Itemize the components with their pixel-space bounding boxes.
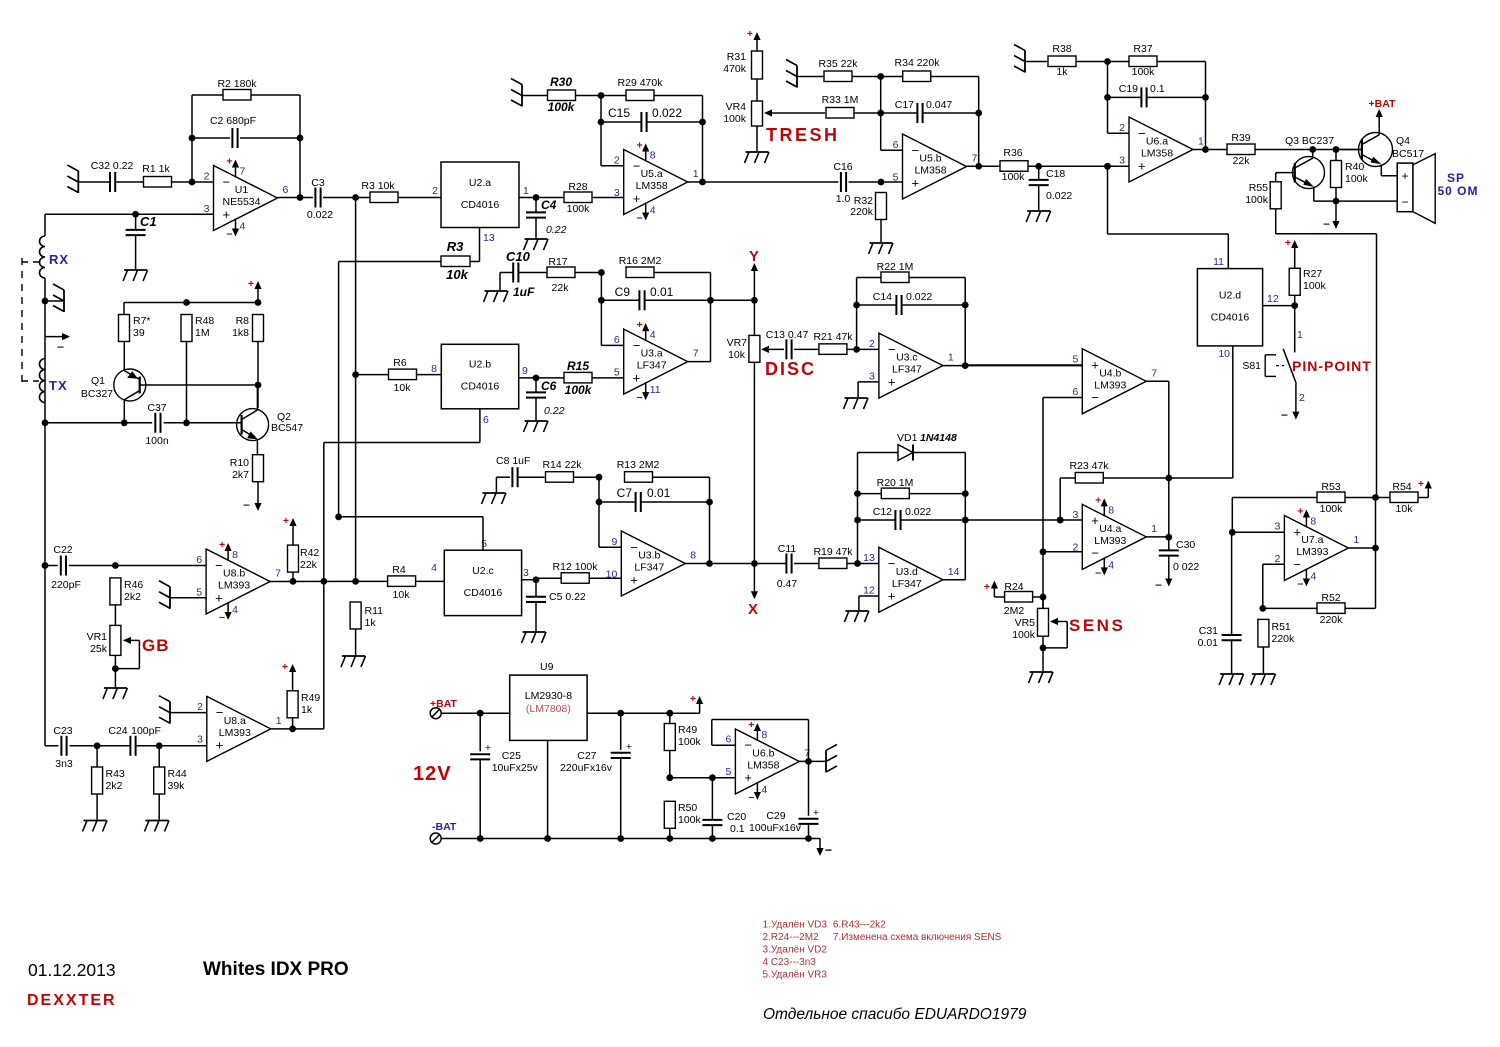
- svg-text:10: 10: [1218, 348, 1230, 360]
- svg-text:4: 4: [761, 784, 767, 796]
- svg-text:5: 5: [893, 171, 899, 183]
- svg-text:C25: C25: [502, 750, 521, 762]
- svg-text:7: 7: [804, 747, 810, 759]
- svg-text:C12: C12: [873, 506, 892, 518]
- svg-text:C2 680pF: C2 680pF: [210, 115, 256, 127]
- svg-text:VR7: VR7: [727, 337, 748, 349]
- svg-text:-BAT: -BAT: [432, 821, 457, 833]
- svg-text:−: −: [1091, 546, 1099, 561]
- svg-text:5: 5: [614, 366, 620, 378]
- svg-text:100uFx16v: 100uFx16v: [749, 822, 802, 834]
- svg-text:+: +: [1091, 358, 1099, 373]
- svg-text:+: +: [216, 738, 224, 753]
- svg-text:U3.d: U3.d: [896, 566, 918, 578]
- svg-text:100k: 100k: [1320, 503, 1344, 515]
- svg-text:10: 10: [606, 568, 618, 580]
- svg-text:U9: U9: [540, 661, 554, 673]
- svg-text:R1 1k: R1 1k: [142, 163, 170, 175]
- svg-text:LM393: LM393: [1094, 379, 1126, 391]
- svg-text:7.Изменена схема включения SEN: 7.Изменена схема включения SENS: [833, 932, 1002, 943]
- svg-text:−: −: [748, 792, 754, 804]
- svg-text:100pF: 100pF: [131, 725, 161, 737]
- svg-text:R24: R24: [1004, 581, 1023, 593]
- svg-text:C4: C4: [541, 198, 557, 212]
- svg-text:2k7: 2k7: [232, 469, 249, 481]
- svg-text:U5.a: U5.a: [641, 168, 663, 180]
- svg-text:C31: C31: [1199, 625, 1218, 637]
- svg-text:−: −: [1095, 567, 1101, 579]
- svg-text:3: 3: [1119, 154, 1125, 166]
- svg-text:−: −: [888, 556, 896, 571]
- svg-text:−: −: [57, 340, 64, 354]
- svg-text:R52: R52: [1321, 592, 1340, 604]
- svg-text:1k: 1k: [1056, 66, 1068, 78]
- svg-text:+: +: [630, 572, 638, 587]
- svg-text:+: +: [888, 374, 896, 389]
- svg-text:R46: R46: [124, 579, 143, 591]
- svg-text:R37: R37: [1133, 43, 1152, 55]
- svg-text:CD4016: CD4016: [461, 381, 500, 393]
- svg-text:6: 6: [726, 734, 732, 746]
- svg-text:R16 2M2: R16 2M2: [619, 255, 662, 267]
- svg-text:CD4016: CD4016: [461, 199, 500, 211]
- svg-text:R11: R11: [365, 605, 384, 617]
- svg-text:+: +: [912, 175, 920, 190]
- svg-text:U4.a: U4.a: [1099, 523, 1121, 535]
- svg-text:C29: C29: [766, 810, 785, 822]
- svg-text:1uF: 1uF: [513, 285, 535, 299]
- svg-text:Q3 BC237: Q3 BC237: [1285, 135, 1334, 147]
- svg-text:+: +: [485, 742, 491, 754]
- svg-text:U5.b: U5.b: [919, 153, 941, 165]
- svg-text:+: +: [637, 140, 643, 152]
- svg-text:U3.c: U3.c: [896, 352, 918, 364]
- svg-text:+: +: [248, 278, 254, 290]
- svg-text:R27: R27: [1303, 268, 1322, 280]
- svg-text:CD4016: CD4016: [464, 587, 503, 599]
- svg-text:C10: C10: [506, 249, 531, 264]
- svg-text:C17: C17: [895, 99, 914, 111]
- svg-text:R49: R49: [678, 724, 697, 736]
- svg-text:U2.c: U2.c: [472, 565, 494, 577]
- svg-text:R35 22k: R35 22k: [818, 58, 858, 70]
- svg-text:Y: Y: [749, 248, 759, 265]
- svg-text:Q1: Q1: [91, 375, 105, 387]
- svg-text:7: 7: [693, 348, 699, 360]
- svg-text:14: 14: [948, 566, 960, 578]
- svg-text:GB: GB: [142, 636, 170, 655]
- svg-text:10k: 10k: [393, 589, 411, 601]
- svg-text:R6: R6: [393, 357, 407, 369]
- svg-text:5: 5: [481, 538, 487, 550]
- svg-text:0 022: 0 022: [1173, 561, 1199, 573]
- svg-text:R15: R15: [567, 359, 589, 373]
- svg-text:1N4148: 1N4148: [920, 432, 957, 444]
- svg-text:LM393: LM393: [1296, 546, 1328, 558]
- svg-text:LM393: LM393: [1094, 535, 1126, 547]
- svg-text:3n3: 3n3: [55, 758, 73, 770]
- svg-text:TRESH: TRESH: [766, 125, 840, 145]
- svg-text:+: +: [813, 807, 819, 819]
- svg-text:13: 13: [863, 552, 875, 564]
- svg-text:+: +: [626, 741, 632, 753]
- svg-text:+: +: [984, 581, 990, 593]
- svg-text:1.0: 1.0: [836, 193, 851, 205]
- svg-text:−: −: [633, 338, 641, 353]
- svg-text:C32 0.22: C32 0.22: [91, 160, 134, 172]
- svg-text:1: 1: [1297, 329, 1303, 341]
- svg-text:R2 180k: R2 180k: [217, 78, 257, 90]
- svg-text:2: 2: [204, 170, 210, 182]
- svg-text:220k: 220k: [1272, 633, 1296, 645]
- svg-text:100k: 100k: [1012, 629, 1036, 641]
- svg-text:+: +: [1138, 158, 1146, 173]
- svg-text:C19: C19: [1119, 83, 1138, 95]
- svg-text:1: 1: [276, 715, 282, 727]
- svg-text:R51: R51: [1272, 621, 1291, 633]
- svg-text:+: +: [215, 590, 223, 605]
- svg-text:R43: R43: [106, 768, 125, 780]
- svg-text:U8.b: U8.b: [223, 568, 245, 580]
- svg-text:X: X: [748, 601, 758, 618]
- svg-text:+: +: [282, 661, 288, 673]
- svg-text:100k: 100k: [1345, 173, 1369, 185]
- svg-text:100k: 100k: [567, 203, 591, 215]
- svg-text:8: 8: [1310, 516, 1316, 528]
- svg-text:U3.b: U3.b: [638, 550, 660, 562]
- svg-text:R13 2M2: R13 2M2: [617, 459, 660, 471]
- svg-text:VR4: VR4: [726, 101, 747, 113]
- svg-text:R17: R17: [548, 256, 567, 268]
- svg-text:5: 5: [1072, 354, 1078, 366]
- svg-text:22k: 22k: [1233, 155, 1251, 167]
- svg-text:−: −: [912, 143, 920, 158]
- svg-text:C11: C11: [778, 543, 797, 555]
- svg-text:5: 5: [726, 766, 732, 778]
- svg-text:R42: R42: [300, 547, 319, 559]
- svg-text:10k: 10k: [446, 267, 468, 282]
- svg-text:LF347: LF347: [892, 578, 922, 590]
- svg-text:+: +: [226, 156, 232, 168]
- svg-text:C9: C9: [615, 285, 631, 299]
- svg-text:−: −: [1297, 579, 1303, 591]
- svg-text:U3.a: U3.a: [641, 348, 663, 360]
- svg-text:100k: 100k: [723, 113, 747, 125]
- svg-text:C14: C14: [873, 291, 892, 303]
- svg-text:R34 220k: R34 220k: [895, 57, 941, 69]
- svg-text:10k: 10k: [394, 382, 412, 394]
- svg-text:C24: C24: [108, 725, 127, 737]
- svg-text:50 OM: 50 OM: [1437, 184, 1478, 198]
- svg-text:C23: C23: [53, 725, 72, 737]
- svg-text:2M2: 2M2: [1004, 605, 1025, 617]
- svg-text:7: 7: [240, 166, 246, 178]
- svg-text:5: 5: [196, 586, 202, 598]
- svg-text:9: 9: [522, 365, 528, 377]
- svg-text:(LM7808): (LM7808): [526, 703, 571, 715]
- svg-text:0.1: 0.1: [1150, 83, 1165, 95]
- svg-text:2: 2: [1119, 122, 1125, 134]
- svg-text:−: −: [630, 540, 638, 555]
- svg-text:0.047: 0.047: [926, 99, 952, 111]
- svg-text:DEXXTER: DEXXTER: [27, 992, 117, 1009]
- svg-text:2.R24---2M2: 2.R24---2M2: [763, 932, 820, 943]
- svg-text:R8: R8: [236, 315, 250, 327]
- svg-text:LM393: LM393: [218, 580, 250, 592]
- svg-text:PIN-POINT: PIN-POINT: [1292, 358, 1372, 374]
- svg-text:+BAT: +BAT: [1369, 98, 1397, 110]
- svg-text:7: 7: [275, 568, 281, 580]
- svg-text:R36: R36: [1003, 147, 1022, 159]
- svg-text:5.Удалён VR3: 5.Удалён VR3: [763, 970, 828, 981]
- svg-text:R50: R50: [678, 802, 697, 814]
- svg-text:1k: 1k: [365, 617, 377, 629]
- svg-text:LF347: LF347: [637, 360, 667, 372]
- svg-text:1: 1: [523, 185, 529, 197]
- svg-text:12V: 12V: [413, 763, 452, 785]
- svg-text:R55: R55: [1249, 182, 1268, 194]
- svg-text:+: +: [633, 191, 641, 206]
- svg-text:2: 2: [432, 185, 438, 197]
- svg-text:R22 1M: R22 1M: [877, 261, 914, 273]
- svg-text:9: 9: [611, 536, 617, 548]
- svg-text:R14 22k: R14 22k: [542, 459, 582, 471]
- svg-text:25k: 25k: [90, 643, 108, 655]
- svg-text:−: −: [223, 174, 231, 189]
- svg-text:R3 10k: R3 10k: [361, 180, 395, 192]
- svg-text:R4: R4: [392, 564, 406, 576]
- svg-text:R3: R3: [447, 239, 464, 254]
- svg-text:BC547: BC547: [271, 422, 303, 434]
- svg-text:LF347: LF347: [634, 562, 664, 574]
- svg-text:C37: C37: [147, 402, 166, 414]
- svg-text:1k8: 1k8: [232, 327, 249, 339]
- svg-text:BC517: BC517: [1392, 148, 1424, 160]
- svg-text:−: −: [219, 612, 225, 624]
- svg-text:3: 3: [523, 567, 529, 579]
- svg-text:R31: R31: [727, 51, 746, 63]
- svg-text:0.22: 0.22: [546, 224, 567, 236]
- svg-text:LM2930-8: LM2930-8: [525, 690, 572, 702]
- svg-text:10uFx25v: 10uFx25v: [492, 762, 539, 774]
- svg-text:4: 4: [650, 329, 656, 341]
- svg-text:R21 47k: R21 47k: [813, 331, 853, 343]
- svg-text:2: 2: [869, 338, 875, 350]
- svg-text:U2.d: U2.d: [1219, 289, 1241, 301]
- svg-text:2: 2: [1275, 553, 1281, 565]
- svg-text:RX: RX: [49, 252, 69, 267]
- svg-text:3: 3: [614, 187, 620, 199]
- svg-text:13: 13: [483, 232, 495, 244]
- svg-text:R23 47k: R23 47k: [1069, 460, 1109, 472]
- svg-text:R29 470k: R29 470k: [618, 77, 664, 89]
- svg-text:6: 6: [893, 139, 899, 151]
- svg-text:3: 3: [1275, 520, 1281, 532]
- svg-text:470k: 470k: [723, 63, 747, 75]
- svg-text:+: +: [1285, 237, 1291, 249]
- svg-text:C27: C27: [577, 750, 596, 762]
- svg-text:0.022: 0.022: [1046, 190, 1072, 202]
- svg-text:R48: R48: [195, 315, 214, 327]
- svg-text:U6.a: U6.a: [1146, 136, 1168, 148]
- svg-text:100k: 100k: [1245, 194, 1269, 206]
- svg-text:U7.a: U7.a: [1301, 534, 1323, 546]
- svg-text:100n: 100n: [145, 435, 169, 447]
- svg-text:6: 6: [196, 554, 202, 566]
- svg-text:1: 1: [1353, 534, 1359, 546]
- svg-text:8: 8: [761, 729, 767, 741]
- svg-text:C22: C22: [53, 544, 72, 556]
- svg-text:R33 1M: R33 1M: [822, 94, 859, 106]
- svg-text:+: +: [637, 319, 643, 331]
- svg-text:7: 7: [1151, 367, 1157, 379]
- svg-text:−: −: [825, 843, 832, 857]
- svg-text:10k: 10k: [1396, 503, 1414, 515]
- svg-text:R53: R53: [1321, 481, 1340, 493]
- svg-text:−: −: [633, 158, 641, 173]
- svg-text:7: 7: [972, 153, 978, 165]
- svg-text:SP: SP: [1447, 171, 1465, 185]
- svg-text:+: +: [744, 770, 752, 785]
- svg-text:1.Удалён VD3: 1.Удалён VD3: [763, 920, 828, 931]
- svg-text:−: −: [637, 392, 643, 404]
- svg-text:C6: C6: [541, 379, 557, 393]
- svg-text:U8.a: U8.a: [224, 715, 246, 727]
- svg-text:2k2: 2k2: [124, 591, 141, 603]
- svg-text:C15: C15: [608, 106, 630, 120]
- svg-text:R44: R44: [168, 768, 187, 780]
- svg-text:R19 47k: R19 47k: [813, 546, 853, 558]
- svg-text:−: −: [888, 342, 896, 357]
- svg-text:39: 39: [133, 327, 145, 339]
- svg-text:LM358: LM358: [1141, 148, 1173, 160]
- svg-text:VR1: VR1: [87, 631, 108, 643]
- svg-text:DISC: DISC: [765, 359, 816, 379]
- svg-text:3.Удалён VD2: 3.Удалён VD2: [763, 945, 828, 956]
- svg-text:Отдельное спасибо EDUARDO1979: Отдельное спасибо EDUARDO1979: [763, 1006, 1027, 1023]
- svg-text:10k: 10k: [728, 349, 746, 361]
- svg-text:C30: C30: [1176, 539, 1195, 551]
- svg-text:6: 6: [1072, 386, 1078, 398]
- svg-text:3: 3: [204, 203, 210, 215]
- svg-text:+: +: [219, 539, 225, 551]
- svg-text:CD4016: CD4016: [1211, 311, 1250, 323]
- svg-text:−: −: [637, 213, 643, 225]
- svg-text:−: −: [216, 705, 224, 720]
- svg-text:R28: R28: [568, 181, 587, 193]
- svg-text:C7: C7: [617, 486, 633, 500]
- svg-text:100k: 100k: [678, 736, 702, 748]
- svg-text:11: 11: [1213, 256, 1224, 268]
- svg-text:R39: R39: [1231, 132, 1250, 144]
- svg-text:1M: 1M: [195, 327, 210, 339]
- svg-text:0.022: 0.022: [307, 209, 333, 221]
- svg-text:C5 0.22: C5 0.22: [549, 591, 586, 603]
- svg-text:100k: 100k: [1002, 171, 1026, 183]
- svg-text:SENS: SENS: [1069, 616, 1125, 635]
- svg-text:220k: 220k: [850, 206, 874, 218]
- svg-text:6: 6: [614, 334, 620, 346]
- svg-text:C18: C18: [1046, 168, 1065, 180]
- svg-text:+: +: [283, 515, 289, 527]
- svg-text:39k: 39k: [168, 780, 186, 792]
- svg-text:Q4: Q4: [1396, 135, 1410, 147]
- svg-text:U2.b: U2.b: [469, 359, 491, 371]
- svg-text:6: 6: [283, 184, 289, 196]
- svg-text:4: 4: [1108, 559, 1114, 571]
- svg-text:U6.b: U6.b: [752, 747, 774, 759]
- svg-text:R10: R10: [230, 457, 249, 469]
- svg-text:0.01: 0.01: [1198, 637, 1219, 649]
- svg-text:2: 2: [1299, 392, 1305, 404]
- svg-text:R30: R30: [550, 75, 572, 89]
- svg-text:0.47: 0.47: [777, 578, 798, 590]
- svg-text:−: −: [1091, 390, 1099, 405]
- svg-text:4 C23---3n3: 4 C23---3n3: [763, 957, 817, 968]
- svg-text:4: 4: [650, 205, 656, 217]
- svg-text:LM393: LM393: [219, 727, 251, 739]
- svg-text:C20: C20: [727, 811, 746, 823]
- svg-text:1: 1: [1198, 136, 1204, 148]
- svg-text:22k: 22k: [552, 282, 570, 294]
- svg-text:−: −: [226, 229, 232, 241]
- svg-text:BC327: BC327: [81, 388, 113, 400]
- svg-text:0.1: 0.1: [730, 823, 745, 835]
- svg-text:220uFx16v: 220uFx16v: [560, 762, 613, 774]
- svg-text:−: −: [1293, 557, 1301, 572]
- svg-text:+: +: [747, 28, 753, 40]
- svg-text:+: +: [748, 719, 754, 731]
- svg-text:01.12.2013: 01.12.2013: [28, 960, 116, 980]
- svg-text:LM358: LM358: [747, 759, 779, 771]
- svg-text:+: +: [1095, 494, 1101, 506]
- svg-text:1: 1: [693, 168, 699, 180]
- svg-text:C3: C3: [311, 177, 325, 189]
- svg-text:0.022: 0.022: [905, 506, 931, 518]
- svg-text:4: 4: [232, 604, 238, 616]
- svg-text:1: 1: [1151, 523, 1157, 535]
- svg-text:LF347: LF347: [892, 364, 922, 376]
- svg-text:R20 1M: R20 1M: [877, 477, 914, 489]
- svg-text:−: −: [215, 558, 223, 573]
- svg-text:100k: 100k: [1132, 66, 1156, 78]
- svg-text:NE5534: NE5534: [223, 196, 261, 208]
- svg-text:100k: 100k: [548, 100, 576, 114]
- svg-text:C8 1uF: C8 1uF: [496, 455, 530, 467]
- svg-text:R12 100k: R12 100k: [553, 561, 599, 573]
- svg-text:11: 11: [650, 384, 661, 396]
- svg-text:0.022: 0.022: [906, 291, 932, 303]
- svg-text:+: +: [1091, 513, 1099, 528]
- svg-text:−: −: [1155, 578, 1162, 592]
- svg-text:R49: R49: [301, 692, 320, 704]
- svg-text:1: 1: [948, 352, 954, 364]
- svg-text:8: 8: [1108, 504, 1114, 516]
- svg-text:−: −: [1138, 126, 1146, 141]
- svg-text:C1: C1: [140, 214, 157, 229]
- svg-text:220k: 220k: [1320, 614, 1344, 626]
- svg-text:R40: R40: [1345, 161, 1364, 173]
- svg-text:22k: 22k: [300, 559, 318, 571]
- svg-text:4: 4: [431, 562, 437, 574]
- svg-text:100k: 100k: [678, 814, 702, 826]
- svg-text:R54: R54: [1392, 481, 1411, 493]
- svg-text:VR5: VR5: [1015, 617, 1036, 629]
- svg-text:3: 3: [197, 734, 203, 746]
- svg-text:R38: R38: [1052, 43, 1071, 55]
- svg-text:U2.a: U2.a: [469, 177, 491, 189]
- svg-text:U1: U1: [235, 184, 249, 196]
